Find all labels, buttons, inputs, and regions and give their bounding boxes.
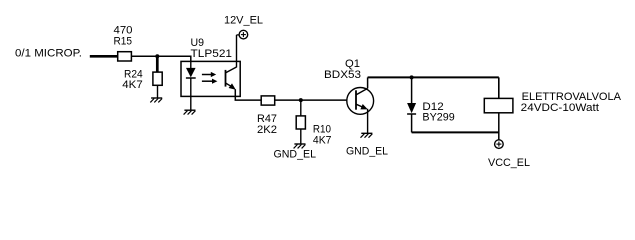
svg-text:GND_EL: GND_EL [274, 148, 317, 160]
wire Q1 collector to valve (bold top rail) [368, 77, 499, 98]
svg-text:4K7: 4K7 [313, 135, 332, 147]
wire R10 to ground [300, 129, 302, 144]
ground under R24 [150, 98, 162, 102]
svg-text:BDX53: BDX53 [324, 69, 361, 81]
power 12V_EL [224, 14, 263, 39]
U9 LED [186, 61, 196, 110]
wire U9 emitter to R47 [235, 89, 261, 100]
wire D12 to valve (bottom rail) [412, 131, 499, 133]
svg-text:VCC_EL: VCC_EL [488, 157, 530, 169]
svg-text:2K2: 2K2 [257, 124, 277, 136]
resistor R24 [122, 68, 162, 91]
wire Q1 collector up [367, 77, 369, 88]
ground under Q1 (GND_EL) [346, 133, 388, 157]
ground under U9 LED [184, 110, 196, 114]
svg-text:R15: R15 [114, 36, 133, 48]
ground under R10 (GND_EL) [274, 144, 317, 160]
wire R15 to U9 LED anode [131, 56, 190, 61]
U9 light arrow 2 [202, 79, 218, 84]
wire Q1 emitter to ground [367, 109, 369, 134]
junction node C [410, 75, 414, 79]
wire R24 to ground [157, 85, 159, 98]
power VCC_EL [488, 140, 530, 169]
svg-text:Q1: Q1 [345, 58, 360, 70]
wire junction to R10 [300, 100, 302, 116]
svg-text:TLP521: TLP521 [191, 48, 233, 60]
junction node B [299, 98, 303, 102]
U9 phototransistor [226, 67, 237, 90]
junction node A [155, 54, 159, 58]
svg-text:4K7: 4K7 [122, 79, 142, 91]
U9 light arrow 1 [202, 72, 216, 77]
transistor Q1 BDX53 [324, 58, 374, 114]
resistor R47 [257, 96, 277, 136]
svg-text:24VDC-10Watt: 24VDC-10Watt [521, 102, 599, 114]
resistor R10 [296, 116, 331, 147]
solenoid valve coil ELETTROVALVOLA [484, 91, 621, 140]
diode D12 BY299 [407, 77, 455, 132]
wire U9 collector to 12V_EL [237, 35, 240, 68]
wire input stub (bold) [90, 55, 118, 58]
wire R47 to Q1 base [275, 99, 347, 101]
svg-text:0/1 MICROP.: 0/1 MICROP. [15, 47, 82, 59]
svg-text:BY299: BY299 [422, 112, 454, 124]
op-amp U9 opto-isolator TLP521 body [181, 37, 240, 97]
svg-text:GND_EL: GND_EL [346, 146, 388, 158]
svg-text:12V_EL: 12V_EL [224, 14, 263, 26]
net label 0/1 MICROP. [15, 47, 82, 59]
wire junction to R24 (bold) [156, 56, 159, 72]
resistor R15 [114, 25, 133, 61]
